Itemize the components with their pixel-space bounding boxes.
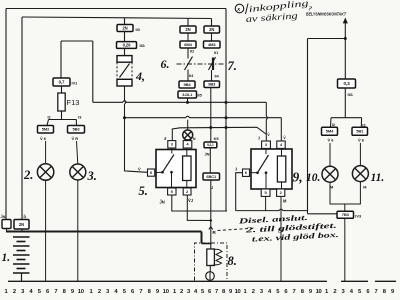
wire: battery positive bus (thick) y=231.5 bbox=[6, 231, 202, 233]
svg-text:7: 7 bbox=[139, 289, 142, 295]
svg-text:2: 2 bbox=[333, 289, 336, 295]
svg-text:7: 7 bbox=[375, 289, 378, 295]
wire: 5B1 down to lamp 11 bbox=[359, 143, 361, 166]
cable box 2N (ignition col A) bbox=[180, 26, 196, 33]
svg-text:2N: 2N bbox=[122, 26, 127, 31]
wire: thick feed drop into resistor box 8 bbox=[201, 232, 203, 244]
connector box 6BC1 bbox=[203, 173, 220, 180]
wire: stub inner line to box 2N (comp 4 column) bbox=[124, 18, 126, 25]
relay 5 terminal 5 bbox=[168, 188, 176, 195]
svg-text:1.: 1. bbox=[2, 252, 11, 264]
svg-text:V̄: V̄ bbox=[138, 167, 141, 172]
wire: lamp 2 to ground rail bbox=[45, 180, 47, 281]
ground rail segment 3 bbox=[375, 280, 396, 282]
svg-text:V̄ 6: V̄ 6 bbox=[40, 136, 47, 141]
connector box JN (battery feed, far left) bbox=[2, 220, 11, 229]
cable box 5M4 bbox=[322, 127, 338, 135]
svg-text:M: M bbox=[363, 185, 366, 190]
battery 1 plates bbox=[13, 237, 30, 273]
wire: feeder x=92.8 from bridge down to bus A bbox=[92, 41, 94, 102]
node: bus A junction at col A bbox=[186, 101, 189, 104]
wire: 0,29 to component 4 bbox=[124, 48, 126, 55]
wire: 9B3 down to relay coil feed 9,2,1 crossing buses bbox=[210, 88, 212, 143]
svg-text:2: 2 bbox=[98, 289, 101, 295]
wire: bridge (61,41)-(92.8,41) feeding F13 branch bbox=[61, 40, 93, 42]
svg-text:10: 10 bbox=[316, 289, 322, 295]
node: junction col B with bus C bbox=[209, 126, 212, 129]
svg-text:0,7: 0,7 bbox=[59, 80, 65, 85]
relay 5 coil bbox=[183, 156, 191, 181]
wire: outer supply loop top (6,8.5)-(226,8.5) bbox=[6, 8, 226, 10]
wire: 5M4 down to lamp 10 bbox=[329, 143, 331, 166]
node: junction dots on x=226 at bus crossings bbox=[225, 101, 228, 104]
wire: col B 2N to 4M3 bbox=[211, 33, 213, 41]
wire: JN box to battery bus bbox=[6, 229, 8, 232]
cable label 2N (battery feed) bbox=[14, 220, 29, 230]
svg-text:I2: I2 bbox=[332, 123, 335, 127]
svg-text:F13: F13 bbox=[67, 98, 80, 107]
value box 6M4 bbox=[180, 41, 196, 48]
svg-text:9,: 9, bbox=[293, 170, 303, 185]
svg-text:6.: 6. bbox=[161, 57, 170, 71]
note: circled x inkoppling av sakring bbox=[235, 4, 244, 13]
svg-text:V̄ 6: V̄ 6 bbox=[358, 138, 365, 143]
svg-text:10: 10 bbox=[163, 289, 169, 295]
svg-text:V̄: V̄ bbox=[283, 136, 286, 140]
relay 9 terminal 2 bbox=[277, 189, 285, 196]
wire: lamp to terminal 4 bbox=[187, 140, 189, 141]
svg-text:11.: 11. bbox=[371, 172, 385, 184]
wire: lower bus y=210.6 to lighting-switch riser bbox=[236, 209, 308, 211]
svg-text:II1: II1 bbox=[214, 51, 218, 55]
svg-text:2: 2 bbox=[13, 289, 16, 295]
svg-text:9B4: 9B4 bbox=[183, 82, 191, 87]
svg-text:BELYSNINGSKONTAKT: BELYSNINGSKONTAKT bbox=[306, 12, 347, 17]
glow plug connector circle bbox=[206, 272, 215, 281]
relay 9 body bbox=[251, 149, 292, 189]
svg-text:6M4: 6M4 bbox=[184, 42, 192, 47]
svg-text:J̄N: J̄N bbox=[205, 152, 210, 157]
wire: arrow junction down to 0,3 box bbox=[344, 39, 346, 80]
cable box 7B3 bbox=[337, 211, 354, 218]
wire: 2N box to battery bus bbox=[21, 229, 23, 232]
svg-text:7: 7 bbox=[54, 289, 57, 295]
wire: horizontal (307.5,38.5)-(345.3,38.5) bbox=[308, 38, 346, 40]
svg-text:0,3: 0,3 bbox=[343, 81, 350, 86]
svg-text:5M4: 5M4 bbox=[326, 129, 334, 134]
wire: relay 9 terminal 5 stub to lower bus bbox=[265, 196, 267, 210]
svg-text:II5: II5 bbox=[198, 94, 202, 98]
wire: 7B3 to ground rail bbox=[344, 218, 346, 281]
wire: stub inner line to right ignition column bbox=[211, 19, 213, 27]
arrow R into resistor 8 bbox=[209, 227, 213, 230]
svg-text:7: 7 bbox=[215, 289, 218, 295]
relay 5 terminal 2 bbox=[183, 188, 191, 195]
relay 5 body bbox=[156, 150, 196, 188]
relay 5 internal contact arm bbox=[155, 171, 163, 173]
wire: inner line left drop x=22 bbox=[21, 17, 23, 220]
svg-text:2: 2 bbox=[180, 289, 183, 295]
cable box 5B1 bbox=[352, 127, 368, 135]
component 4: ballast resistor with dashed body bbox=[117, 56, 132, 63]
svg-text:2N: 2N bbox=[185, 27, 190, 32]
wire: relay 5 contact to terminal 5 bbox=[171, 172, 173, 188]
wire: 0,3 to split bbox=[344, 88, 346, 118]
wire: outer loop right drop x=226 down to relay area bbox=[225, 9, 227, 212]
svg-text:II2: II2 bbox=[190, 50, 194, 54]
fuse F13 bbox=[58, 93, 65, 111]
svg-text:9,2,1: 9,2,1 bbox=[207, 143, 214, 147]
bus B: from comp 4 junction to relay 9 terminal 4 bbox=[125, 116, 282, 118]
svg-text:10.: 10. bbox=[306, 172, 320, 184]
indicator lamp above relay 5 terminal 4 bbox=[187, 120, 189, 130]
svg-text:3.: 3. bbox=[87, 169, 97, 183]
svg-text:0,29: 0,29 bbox=[123, 43, 132, 48]
switch 7 contact bar and slash (col B) bbox=[212, 58, 214, 71]
svg-text:7B3: 7B3 bbox=[342, 212, 350, 217]
wire: common return to 7B3 bbox=[344, 204, 346, 211]
connector box 9,2,1 bbox=[204, 142, 217, 148]
svg-text:5B1: 5B1 bbox=[356, 129, 364, 134]
relay 5 terminal 6 (left) bbox=[148, 169, 155, 176]
value box 0,7 bbox=[53, 78, 70, 86]
wire: 5M2 down to lamp 2 bbox=[45, 141, 47, 164]
svg-text:10: 10 bbox=[235, 289, 241, 295]
node: junction at arrow base bbox=[344, 37, 347, 40]
value box 3-DL1 bbox=[178, 91, 197, 98]
relay 9 coil bbox=[277, 156, 285, 182]
svg-text:III1: III1 bbox=[348, 92, 354, 97]
wire: riser to 7B3 box bbox=[308, 213, 338, 215]
svg-text:6BC1: 6BC1 bbox=[206, 174, 217, 179]
node: bus B start junction bbox=[123, 116, 126, 119]
svg-text:4M3: 4M3 bbox=[208, 42, 216, 47]
wire: col A 2N to 6M4 bbox=[187, 33, 189, 41]
svg-text:K5: K5 bbox=[214, 136, 220, 141]
zigzag bypass resistor in box 8 bbox=[216, 250, 222, 265]
svg-text:2.: 2. bbox=[23, 168, 33, 182]
wire: relay 9 terminal 6 loop to lower bus bbox=[236, 173, 243, 211]
svg-text:5.: 5. bbox=[139, 184, 148, 198]
wire: 6BC1 down to resistor 8 (R) bbox=[210, 180, 212, 244]
bus A: from feeder to relay 9 terminal 3 bbox=[93, 101, 266, 103]
svg-text:2: 2 bbox=[252, 289, 255, 295]
svg-text:4,: 4, bbox=[135, 69, 145, 83]
svg-text:V̄: V̄ bbox=[267, 133, 270, 137]
svg-text:8.: 8. bbox=[228, 254, 237, 268]
wire: col A below switch to 9B4 bbox=[187, 70, 189, 82]
wire: drop x=61 bridge to box 0,7 bbox=[60, 41, 62, 78]
wire: battery to ground rail bbox=[21, 273, 23, 281]
wire: T split to 5M2 / 5B3 bbox=[49, 119, 77, 121]
wire: 3-DL1 to bus A bbox=[187, 98, 189, 102]
wire: stub inner line to left ignition column bbox=[187, 18, 189, 26]
switch 6 contact slash (col A) bbox=[185, 57, 193, 71]
wire: riser x=307.5 down to instrument lamp bus bbox=[307, 39, 309, 214]
wire: relay 5 terminal 2 to J/R wire bbox=[187, 195, 211, 221]
ground rail segment 2 bbox=[341, 280, 368, 282]
resistor unit 8 dashed enclosure bbox=[195, 243, 228, 281]
wire: relay 9 contact to terminal 5 bbox=[265, 173, 267, 189]
svg-text:M: M bbox=[283, 199, 287, 204]
wire: 2N to 0,29 bbox=[124, 32, 126, 42]
svg-text:9B3: 9B3 bbox=[208, 82, 216, 87]
relay 9 terminal 5 bbox=[261, 189, 270, 196]
wire: bus B drop to relay 9 terminal 4 bbox=[280, 118, 282, 141]
svg-text:V̄ R: V̄ R bbox=[72, 136, 79, 141]
terminal number scale along bottom bbox=[5, 289, 396, 295]
cable box 2N (ignition col B) bbox=[204, 26, 220, 33]
wire: col B to 9B3 bbox=[211, 70, 213, 81]
wire: T split to 5M4 / 5B1 bbox=[331, 117, 362, 119]
wire: lamp 3 to ground rail bbox=[77, 180, 79, 281]
svg-text:J̄N: J̄N bbox=[160, 200, 165, 205]
value box 9B4 bbox=[179, 81, 195, 88]
value box 0,3 bbox=[338, 79, 356, 88]
svg-text:I2: I2 bbox=[48, 116, 51, 120]
svg-text:3-DL1: 3-DL1 bbox=[182, 93, 192, 97]
svg-text:5B3: 5B3 bbox=[72, 127, 80, 132]
wire: component 4 output down to bus B junction and relay 5 terminal 6 bbox=[125, 86, 148, 172]
svg-text:N: N bbox=[193, 137, 196, 141]
wire: lamps 10/11 common return bbox=[330, 182, 360, 204]
wire: outer loop left drop x=6 bbox=[5, 9, 7, 220]
node: junction with relay5 t2 wire bbox=[210, 219, 212, 221]
wire: col A 6M4 to switch contact bbox=[187, 48, 189, 59]
svg-text:J̄N: J̄N bbox=[1, 215, 6, 219]
wire: 5B3 down to lamp 3 bbox=[77, 141, 78, 164]
svg-text:2N: 2N bbox=[209, 27, 214, 32]
wire: resistor to glow plug circle bbox=[209, 266, 211, 272]
svg-text:J̄: J̄ bbox=[235, 167, 237, 171]
cable box 5M2 bbox=[38, 126, 54, 134]
svg-text:V̄J: V̄J bbox=[188, 198, 193, 203]
resistor element in box 8 bbox=[207, 249, 215, 266]
wire: bus A drop to relay 9 terminal 3 bbox=[266, 102, 267, 141]
ground rail (bottom) segment 1 bbox=[8, 280, 327, 282]
svg-text:III1: III1 bbox=[140, 43, 146, 48]
svg-text:2N: 2N bbox=[19, 222, 24, 227]
cable box 2N (comp 4 column) bbox=[117, 25, 133, 32]
lamp 10 bbox=[322, 166, 338, 182]
value box 0,29 bbox=[117, 42, 137, 49]
value box 9B3 bbox=[204, 81, 220, 88]
svg-text:5M2: 5M2 bbox=[42, 127, 50, 132]
lamp 11 bbox=[352, 166, 368, 182]
cable box 5B3 (left) bbox=[68, 126, 85, 134]
svg-text:J̄: J̄ bbox=[258, 136, 260, 140]
svg-text:IV3: IV3 bbox=[355, 213, 362, 218]
svg-text:x: x bbox=[236, 7, 240, 13]
wire: relay 9 terminal 2 to ground rail bbox=[280, 196, 282, 281]
arrow to lighting switch bbox=[344, 22, 346, 39]
relay 9 internal contact arm bbox=[250, 172, 258, 174]
wire: F13 to split bbox=[61, 111, 63, 120]
svg-text:7.: 7. bbox=[228, 59, 237, 73]
relay 5 terminal 4 bbox=[183, 141, 192, 148]
wire: relay 5 terminal 5 to x=226 riser bbox=[172, 195, 227, 211]
tie wires to bypass zigzag bbox=[211, 248, 220, 251]
wire: inner supply line (22,17)-(211.5,18.5) bbox=[22, 17, 212, 19]
svg-text:IV1: IV1 bbox=[72, 81, 79, 86]
svg-text:I3: I3 bbox=[78, 116, 81, 120]
value box 4M3 bbox=[204, 41, 221, 48]
svg-text:J: J bbox=[211, 185, 213, 190]
wire: 9,2,1 to 6BC1 bbox=[209, 148, 211, 173]
note leader dashes bbox=[218, 228, 257, 231]
wire: 0,7 to fuse F13 bbox=[61, 86, 63, 93]
lamp 2 bbox=[37, 164, 53, 180]
lamp 3 bbox=[70, 164, 86, 180]
svg-text:10: 10 bbox=[78, 289, 84, 295]
svg-text:7: 7 bbox=[293, 289, 296, 295]
bus C: relay 5 terminal 3 to relay 9 terminal 3 bbox=[172, 127, 266, 140]
ignition switch 6/7 dash-dot actuator line bbox=[177, 63, 226, 65]
svg-text:V̄ 6: V̄ 6 bbox=[328, 138, 335, 143]
wire: R wire into resistor bbox=[210, 244, 212, 250]
svg-text:D̄: D̄ bbox=[24, 215, 27, 219]
svg-text:R: R bbox=[212, 230, 216, 236]
